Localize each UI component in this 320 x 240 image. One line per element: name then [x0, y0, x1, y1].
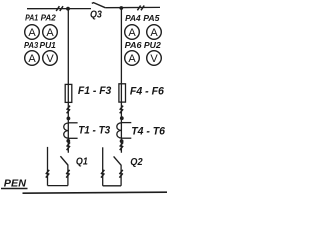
svg-text:PU1: PU1 — [40, 40, 57, 50]
svg-text:PA4: PA4 — [125, 13, 141, 23]
svg-text:A: A — [128, 27, 136, 39]
svg-text:A: A — [128, 53, 136, 65]
svg-text:Q2: Q2 — [130, 157, 143, 168]
svg-text:V: V — [150, 53, 158, 65]
svg-text:F1 - F3: F1 - F3 — [78, 85, 111, 97]
svg-text:T4 - T6: T4 - T6 — [131, 125, 165, 137]
svg-text:PEN: PEN — [4, 179, 27, 190]
svg-text:PA3: PA3 — [24, 40, 39, 50]
svg-text:A: A — [28, 27, 36, 39]
svg-text:A: A — [28, 53, 36, 65]
svg-text:PA6: PA6 — [125, 40, 142, 50]
svg-text:PA2: PA2 — [41, 13, 57, 23]
svg-text:A: A — [46, 27, 54, 39]
svg-text:F4 - F6: F4 - F6 — [130, 86, 164, 98]
svg-text:V: V — [46, 53, 54, 65]
svg-text:Q3: Q3 — [90, 10, 102, 21]
svg-text:PU2: PU2 — [144, 40, 161, 50]
svg-text:T1 - T3: T1 - T3 — [78, 124, 110, 136]
svg-text:PA5: PA5 — [143, 13, 160, 23]
svg-text:PA1: PA1 — [25, 13, 38, 23]
svg-text:A: A — [150, 27, 158, 39]
svg-text:Q1: Q1 — [76, 156, 88, 167]
